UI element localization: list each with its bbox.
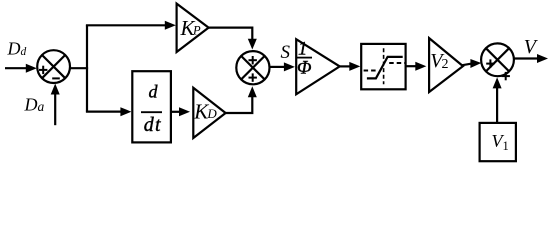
node S label <box>281 42 291 63</box>
summing junction S1 <box>37 50 70 83</box>
saturation dashed upper limit <box>389 62 404 64</box>
label V2 <box>430 50 448 72</box>
block d/dt <box>132 71 171 142</box>
gain V2 triangle <box>429 38 463 92</box>
saturation curve solid <box>367 57 403 79</box>
minus sign S1 <box>52 77 60 79</box>
svg-text:Φ: Φ <box>297 58 311 79</box>
wire d/dt to Kd <box>171 107 190 116</box>
summing junction S2 <box>236 51 269 84</box>
plus sign S2 top <box>249 56 257 64</box>
wire S2 to 1/phi <box>269 62 295 71</box>
svg-text:d: d <box>149 81 159 101</box>
svg-text:V: V <box>524 36 539 58</box>
svg-text:Da: Da <box>24 95 45 115</box>
svg-text:1: 1 <box>298 39 307 59</box>
wire top branch to Kp <box>86 21 176 30</box>
gain 1/phi triangle <box>296 39 340 94</box>
label Kd <box>193 99 217 123</box>
plus sign S2 bottom <box>249 73 257 81</box>
node Dd input label <box>7 39 27 59</box>
wire branch vertical <box>86 25 88 111</box>
label d/dt fraction <box>144 81 162 136</box>
gain Kd triangle <box>193 88 225 138</box>
plus sign S3 left <box>486 59 494 67</box>
plus sign S3 bottom <box>502 72 510 80</box>
wire bottom branch to d/dt <box>86 107 131 116</box>
block V1 <box>480 123 516 161</box>
summing junction S3 <box>481 43 514 76</box>
wire Dd input arrow <box>5 64 37 73</box>
wire Kd to S2 bottom <box>225 86 257 113</box>
plus sign S1 <box>39 66 47 74</box>
svg-text:Dd: Dd <box>7 39 27 59</box>
fraction bar 1/phi <box>296 57 312 59</box>
saturation dashed lower limit <box>364 70 377 72</box>
wire V1 to S3 <box>493 77 502 123</box>
fraction bar d/dt <box>141 111 162 113</box>
svg-text:V1: V1 <box>492 131 509 153</box>
svg-text:S: S <box>281 42 291 63</box>
node Da input label <box>24 95 45 115</box>
saturation dashed vertical axis <box>383 48 385 84</box>
label Kp <box>180 16 202 40</box>
svg-text:dt: dt <box>144 114 162 136</box>
label 1/phi fraction <box>297 39 311 78</box>
wire Da input arrow <box>51 84 60 126</box>
wire Kp to S2 top <box>208 28 257 50</box>
node V output label <box>524 36 539 58</box>
wire V output arrow <box>514 54 548 63</box>
saturation block <box>361 44 405 89</box>
wire 1/phi to saturation <box>338 62 360 71</box>
wire S1 to branch point <box>70 67 88 69</box>
gain Kp triangle <box>177 4 209 52</box>
wire V2 to S3 <box>462 59 481 68</box>
wire saturation to V2 <box>406 62 427 71</box>
label V1 <box>492 131 509 153</box>
